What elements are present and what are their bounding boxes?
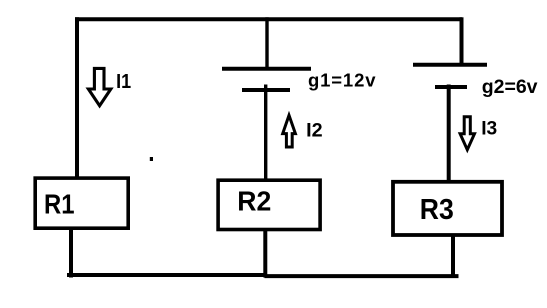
svg-text:I1: I1 bbox=[116, 71, 131, 93]
resistor R1 (box) bbox=[35, 178, 128, 228]
wire: bottom bus right segment bbox=[265, 274, 459, 278]
wire: R3 to bottom bus bbox=[451, 234, 455, 278]
wire: R1 to bottom bus bbox=[69, 229, 73, 278]
resistor R3 (box) bbox=[393, 182, 502, 235]
wire: right branch from top bus to battery g2 bbox=[460, 17, 464, 66]
svg-text:I3: I3 bbox=[481, 118, 497, 140]
svg-text:R2: R2 bbox=[237, 186, 271, 217]
battery g2 negative plate bbox=[435, 85, 467, 89]
node dot (stray mark) bbox=[150, 157, 153, 161]
svg-text:g2=6v: g2=6v bbox=[482, 76, 538, 98]
wire: R2 to bottom bus bbox=[263, 229, 267, 278]
battery g2 positive plate bbox=[413, 63, 487, 67]
battery g1 positive plate bbox=[222, 67, 311, 71]
wire: bottom bus left segment bbox=[67, 273, 267, 277]
svg-text:g1=12v: g1=12v bbox=[308, 70, 376, 91]
wire: left branch from top bus down to R1 bbox=[75, 17, 79, 178]
wire: right branch from battery g2 down to R3 bbox=[447, 85, 451, 183]
battery g1 negative plate bbox=[242, 88, 290, 92]
resistor R2 (box) bbox=[218, 180, 320, 229]
wire: top bus bbox=[75, 17, 462, 21]
current arrow I2 (up) bbox=[283, 115, 296, 147]
wire: middle branch from top bus to battery g1 bbox=[265, 17, 268, 70]
svg-text:R1: R1 bbox=[44, 189, 75, 220]
wire: middle branch from battery g1 down to R2 bbox=[264, 85, 267, 182]
current arrow I1 (down) bbox=[88, 68, 110, 105]
svg-text:R3: R3 bbox=[420, 194, 454, 226]
current arrow I3 (down) bbox=[460, 117, 474, 150]
svg-text:I2: I2 bbox=[306, 120, 323, 142]
